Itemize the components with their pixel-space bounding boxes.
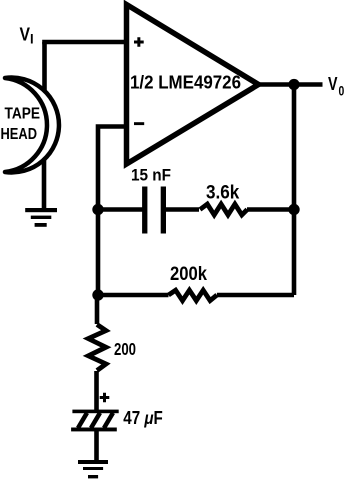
plus polarity marker of C2 bbox=[100, 393, 110, 403]
resistor R3 200 (vertical) bbox=[88, 325, 106, 371]
wire: node C to R2 bbox=[98, 293, 169, 298]
wire: node A to capacitor C1 bbox=[98, 207, 143, 212]
node: feedback node A (inverting input junction) bbox=[92, 204, 103, 215]
tape head transducer (crescent symbol) bbox=[5, 78, 59, 173]
capacitor C2 47 uF (polarized electrolytic) bbox=[71, 410, 119, 432]
node: output junction bbox=[288, 79, 299, 90]
wire: op-amp inverting input to feedback node bbox=[98, 127, 129, 206]
svg-text:I: I bbox=[30, 32, 34, 47]
wire: node A down to node C bbox=[96, 210, 101, 296]
wire: tape head lower lead to ground bbox=[42, 157, 47, 211]
svg-text:47 μF: 47 μF bbox=[123, 408, 163, 428]
wire: R3 to capacitor C2 bbox=[94, 371, 99, 410]
resistor R2 200k bbox=[169, 290, 217, 300]
wire: op-amp output to VO bbox=[255, 82, 323, 87]
wire: input column upper segment into tape head bbox=[42, 42, 47, 93]
svg-text:200k: 200k bbox=[170, 264, 207, 285]
svg-text:200: 200 bbox=[114, 339, 136, 359]
svg-text:V: V bbox=[20, 24, 31, 45]
node: right column junction B bbox=[288, 204, 299, 215]
ground G1 (below tape head) bbox=[25, 208, 57, 227]
wire: output column down right side bbox=[292, 85, 297, 296]
svg-text:0: 0 bbox=[339, 82, 345, 98]
svg-text:3.6k: 3.6k bbox=[206, 182, 240, 203]
op-amp U1 1/2 LME49726 bbox=[127, 5, 259, 165]
label VI bbox=[20, 24, 34, 47]
wire: R1 to right column bbox=[247, 207, 294, 212]
capacitor C1 15 nF bbox=[142, 187, 166, 234]
svg-text:V: V bbox=[328, 73, 338, 94]
op-amp - input marker bbox=[134, 122, 144, 125]
wire: C1 to R1 bbox=[166, 207, 199, 212]
wire: R2 to bottom right corner bbox=[217, 293, 294, 298]
svg-text:1/2 LME49726: 1/2 LME49726 bbox=[130, 72, 241, 93]
wire: node C down to R3 bbox=[95, 295, 100, 324]
ground G2 (bottom) bbox=[78, 460, 108, 478]
svg-text:HEAD: HEAD bbox=[1, 126, 38, 143]
op-amp + input marker bbox=[134, 37, 144, 47]
resistor R1 3.6k bbox=[200, 204, 247, 215]
node: node C (R2/R3 junction) bbox=[92, 289, 103, 300]
svg-text:15 nF: 15 nF bbox=[131, 165, 171, 184]
wire: VI corner to op-amp + input bbox=[45, 40, 130, 42]
label VO bbox=[328, 73, 344, 98]
svg-text:TAPE: TAPE bbox=[5, 106, 41, 123]
wire: C2 to ground G2 bbox=[94, 430, 99, 462]
